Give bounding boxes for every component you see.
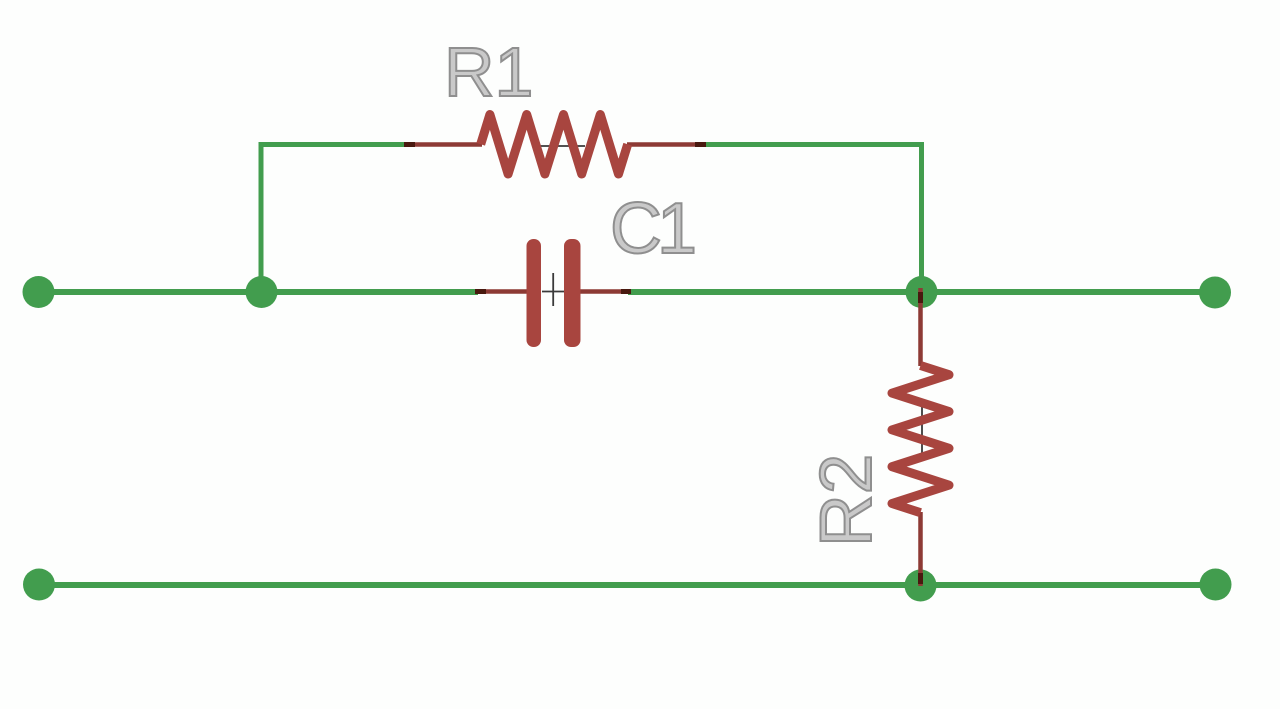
resistor R2: bottom pin dark tip xyxy=(918,573,923,584)
node: left junction dot (R1/C1 branch) xyxy=(246,276,278,308)
node: bottom junction dot (R2 bottom pin) xyxy=(905,570,937,602)
resistor R1: right pin dark tip xyxy=(695,142,706,147)
resistor R2: top pin lead xyxy=(918,288,923,366)
resistor R1: zigzag body xyxy=(481,115,628,175)
capacitor C1: thin cross marker horizontal xyxy=(542,291,567,293)
resistor R1: internal thin line xyxy=(536,145,585,147)
capacitor C1: right pin lead xyxy=(580,289,630,294)
resistor R2: bottom pin lead xyxy=(918,512,923,586)
capacitor C1: left pin dark tip xyxy=(475,289,486,294)
capacitor C1: thin cross marker vertical xyxy=(552,273,554,306)
node: bottom-left terminal dot xyxy=(23,569,55,601)
resistor R2: zigzag body xyxy=(892,366,949,513)
node: bottom-right terminal dot xyxy=(1200,569,1232,601)
label C1 xyxy=(610,193,692,265)
resistor R1: left pin lead xyxy=(405,142,482,147)
capacitor C1: right plate xyxy=(564,239,581,347)
wire: middle horizontal left (input to C1 left pin) xyxy=(38,289,478,295)
wire: top horizontal from R1 right pin and right riser down to middle node xyxy=(703,145,922,292)
resistor R1: left pin dark tip xyxy=(404,142,415,147)
wire: left riser and top horizontal to R1 left pin xyxy=(261,145,407,292)
resistor R2: internal thin line xyxy=(921,400,923,460)
node: right junction dot (R1/C1/R2 branch) xyxy=(906,276,938,308)
node: right output terminal dot (middle) xyxy=(1199,277,1231,309)
capacitor C1: right pin dark tip xyxy=(621,289,631,294)
resistor R2: top pin dark tip xyxy=(918,292,923,303)
label R1 xyxy=(444,37,533,107)
label R2 (rotated) xyxy=(810,454,883,547)
node: left input terminal dot xyxy=(23,276,55,308)
capacitor C1: left plate xyxy=(527,239,542,347)
resistor R1: right pin lead xyxy=(627,142,701,147)
capacitor C1: left pin lead xyxy=(476,289,527,294)
wire: middle horizontal right (C1 right pin to output) xyxy=(628,289,1215,295)
wire: bottom horizontal rail xyxy=(39,582,1215,588)
